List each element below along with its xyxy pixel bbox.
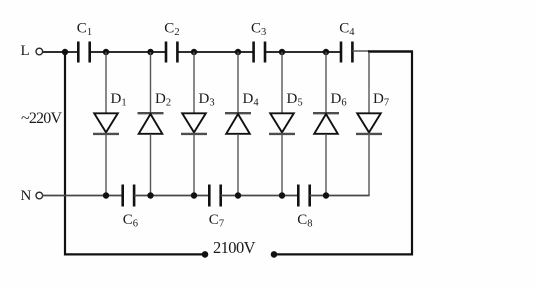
capacitor C1 xyxy=(78,42,89,63)
wire top rail to C1 xyxy=(65,51,79,53)
capacitor C2 xyxy=(166,42,177,63)
junction D6 top xyxy=(323,49,329,55)
terminal output negative xyxy=(202,251,209,258)
wire output left xyxy=(64,253,205,255)
junction D2 top xyxy=(147,49,153,55)
svg-text:C7: C7 xyxy=(209,212,224,230)
wire bottom rail C8 to D7 xyxy=(310,195,370,197)
terminal output positive xyxy=(271,251,278,258)
capacitor C3 xyxy=(254,42,265,63)
wire top rail D7 to right corner xyxy=(368,50,413,52)
diode D7 xyxy=(356,52,382,196)
diode D5 xyxy=(269,52,295,196)
svg-text:N: N xyxy=(21,188,32,204)
capacitor C6 xyxy=(123,185,134,207)
junction D6 bottom xyxy=(323,192,329,198)
svg-text:D3: D3 xyxy=(199,91,215,109)
wire bottom rail C6 to C7 xyxy=(134,195,209,197)
svg-text:C4: C4 xyxy=(339,21,355,39)
svg-text:D7: D7 xyxy=(373,91,389,109)
wire bottom rail C7 to C8 xyxy=(221,195,299,197)
wire top rail C3 to C4 xyxy=(265,51,341,53)
diode D6 xyxy=(313,52,339,196)
junction D3 top xyxy=(191,49,197,55)
svg-text:C6: C6 xyxy=(123,212,138,230)
wire left rail xyxy=(64,52,66,256)
svg-text:D1: D1 xyxy=(111,91,127,109)
wire right rail xyxy=(411,51,413,256)
diode D3 xyxy=(181,52,207,196)
wire output right xyxy=(274,253,413,255)
junction D2 bottom xyxy=(147,192,153,198)
svg-text:D2: D2 xyxy=(155,91,171,109)
svg-text:L: L xyxy=(21,43,30,59)
wire top rail C1 to C2 xyxy=(90,51,166,53)
svg-text:D6: D6 xyxy=(331,91,347,109)
terminal L xyxy=(36,48,43,55)
svg-text:2100V: 2100V xyxy=(213,238,256,257)
svg-text:~220V: ~220V xyxy=(21,110,62,127)
capacitor C7 xyxy=(209,185,220,207)
node L junction xyxy=(62,49,68,55)
wire top rail C4 to D7 xyxy=(352,50,369,52)
svg-text:D5: D5 xyxy=(287,91,303,109)
capacitor C8 xyxy=(298,185,309,207)
wire L stub xyxy=(43,51,65,53)
svg-text:D4: D4 xyxy=(243,91,260,109)
svg-text:C1: C1 xyxy=(77,21,92,39)
junction D1 top xyxy=(103,49,109,55)
junction D1 bottom xyxy=(103,192,109,198)
svg-text:C3: C3 xyxy=(251,21,266,39)
terminal N xyxy=(36,192,43,199)
junction D4 top xyxy=(235,49,241,55)
svg-text:C2: C2 xyxy=(164,21,179,39)
wire bottom rail N to C6 xyxy=(42,195,123,197)
junction D5 top xyxy=(279,49,285,55)
junction D5 bottom xyxy=(279,192,285,198)
capacitor C4 xyxy=(341,42,352,63)
diode D4 xyxy=(225,52,251,196)
diode D2 xyxy=(138,52,164,196)
wire top rail C2 to C3 xyxy=(177,51,253,53)
diode D1 xyxy=(93,52,119,196)
svg-text:C8: C8 xyxy=(297,212,312,230)
junction D3 bottom xyxy=(191,192,197,198)
junction D4 bottom xyxy=(235,192,241,198)
